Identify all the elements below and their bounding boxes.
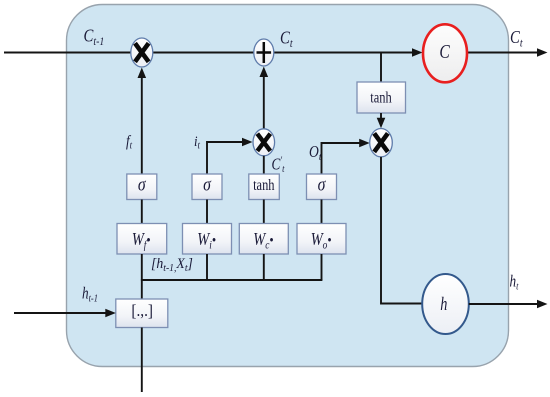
box: sigma 1 — [127, 174, 157, 200]
label ft — [126, 133, 132, 152]
arrowhead into X1 — [138, 68, 147, 79]
node: hidden state ellipse h — [422, 274, 469, 334]
LSTM cell body — [67, 5, 509, 367]
wire: candidate up to plus — [263, 76, 265, 130]
svg-text:[.,.]: [.,.] — [131, 303, 153, 321]
box: Wi — [183, 224, 232, 255]
box: concat — [116, 299, 168, 328]
svg-text:h: h — [440, 293, 447, 314]
svg-text:σ: σ — [138, 174, 146, 194]
wire: Wf to bus — [141, 254, 143, 280]
wire: output gate L — [322, 143, 362, 174]
wire: X3 to tanh2 — [263, 156, 265, 174]
svg-text:C: C — [439, 40, 450, 62]
box: Wc — [239, 224, 288, 255]
box: tanh (top right) — [357, 82, 406, 113]
node: multiply X1 — [131, 38, 153, 67]
wire: forget gate vertical — [141, 76, 143, 174]
wire: bus — [141, 279, 323, 281]
node: add gate — [254, 39, 274, 66]
wire: tanh2 to Wc — [263, 200, 265, 224]
label [h(t-1), Xt] — [151, 256, 193, 275]
wire: input gate L — [207, 142, 244, 174]
label Ct output — [510, 27, 523, 50]
svg-text:ht: ht — [510, 273, 519, 293]
label C(t-1) — [84, 25, 105, 48]
wire: bus down to concat — [141, 280, 143, 299]
svg-text:σ: σ — [318, 174, 326, 194]
wire: branch down to tanh — [380, 53, 382, 82]
label Ct after plus — [280, 27, 293, 50]
arrowhead into X2 — [359, 139, 370, 148]
wire: concat down out — [141, 328, 143, 393]
wire: h output — [469, 303, 539, 305]
wire: sigma1 to Wf — [141, 200, 143, 224]
arrowhead into C — [412, 48, 423, 57]
box: tanh 2 — [249, 174, 279, 200]
box: Wo — [297, 224, 346, 255]
wire: sigma3 to Wo — [321, 200, 323, 224]
box: sigma 2 — [192, 174, 222, 200]
wire: cell state top line — [4, 52, 414, 54]
svg-text:tanh: tanh — [370, 89, 391, 107]
wire: h(t-1) input arrow — [14, 312, 107, 314]
label h(t-1) — [82, 285, 98, 305]
box: sigma 3 — [307, 174, 337, 200]
node: multiply X3 — [253, 129, 275, 156]
wire: Wo to bus — [321, 254, 323, 280]
wire: C to output — [467, 52, 539, 54]
label Ot — [309, 143, 321, 164]
label C't — [272, 156, 285, 176]
label ht — [510, 273, 519, 293]
wire: sigma2 to Wi — [206, 200, 208, 224]
wire: Wi to bus — [206, 254, 208, 280]
arrow tanh to X2 — [380, 113, 382, 120]
svg-text:Ct: Ct — [510, 27, 523, 50]
wire: X2 down and right to h — [381, 157, 423, 304]
label it — [194, 134, 200, 152]
node: multiply X2 — [370, 129, 393, 157]
arrowhead into plus — [260, 67, 269, 78]
svg-text:σ: σ — [203, 174, 211, 194]
box: Wf — [117, 224, 167, 255]
wire: Wc to bus — [263, 254, 265, 280]
arrowhead output Ct — [537, 48, 548, 57]
arrowhead into X3 — [242, 138, 253, 147]
node: cell state ellipse C — [423, 24, 467, 82]
svg-text:tanh: tanh — [253, 177, 274, 195]
